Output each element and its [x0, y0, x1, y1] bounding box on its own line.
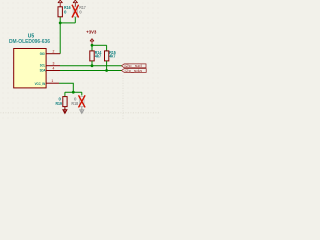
svg-text:1: 1 — [51, 79, 53, 83]
resistor R17 (DNP, gray) — [73, 7, 77, 17]
svg-text:GND: GND — [40, 52, 45, 56]
power flag below R18 (gray) — [80, 107, 84, 114]
wire GND net vertical from pin to R16 — [59, 17, 61, 54]
op module U5 body — [14, 49, 46, 88]
svg-text:VCC_IN: VCC_IN — [35, 82, 46, 86]
svg-text:4k7: 4k7 — [95, 53, 102, 58]
svg-text:4k7: 4k7 — [109, 53, 116, 58]
svg-text:R18: R18 — [71, 101, 78, 106]
svg-text:+3V3: +3V3 — [86, 30, 96, 36]
pin 1 VCC_IN line — [46, 82, 59, 84]
svg-text:4: 4 — [53, 66, 55, 70]
pin 4 SDA line — [46, 70, 60, 72]
resistor R15 — [105, 51, 109, 61]
junction R15/SDA — [105, 69, 108, 72]
svg-text:SDA: SDA — [40, 69, 46, 73]
power flag below R19 — [63, 107, 67, 114]
power flag above R17 — [73, 0, 78, 6]
wire R17 drop — [74, 17, 76, 23]
global label I2c_sda — [122, 69, 147, 73]
junction GND/R16/R17 — [59, 22, 62, 25]
pin 2 GND line — [46, 53, 60, 55]
svg-text:DM-OLED096-636: DM-OLED096-636 — [9, 39, 50, 45]
wire +3V3 across to R15 — [92, 44, 107, 46]
power +3V3 symbol — [90, 39, 94, 46]
wire down to R18 — [81, 92, 83, 95]
svg-text:2: 2 — [53, 50, 55, 54]
svg-text:3: 3 — [53, 62, 55, 66]
wire SDA net — [60, 70, 122, 72]
resistor R18 (DNP, gray) — [80, 97, 84, 107]
wire VCC_IN net — [59, 83, 73, 92]
DNP X over R17 — [72, 5, 79, 18]
wire VCC_IN horizontal split — [65, 91, 82, 93]
pin 3 SCL line — [46, 65, 60, 67]
resistor R16 — [58, 7, 62, 17]
DNP X over R18 — [79, 95, 86, 107]
svg-text:R19: R19 — [56, 101, 63, 106]
wire +3V3 down to R14 — [91, 45, 93, 51]
wire R14 to SCL — [91, 61, 93, 66]
junction R14/SCL — [91, 64, 94, 67]
junction VCC_IN — [72, 91, 75, 94]
svg-text:I2c_scl: I2c_scl — [124, 64, 142, 68]
wire R15 to SDA — [106, 61, 108, 71]
resistor R14 — [90, 51, 94, 61]
wire down to R15 — [106, 45, 108, 51]
wire down to R19 — [64, 92, 66, 96]
global label I2c_scl — [122, 64, 147, 68]
wire horizontal R16 to R17 — [60, 22, 75, 24]
resistor R19 — [63, 97, 67, 107]
svg-text:SCL: SCL — [40, 63, 46, 67]
svg-text:I2c_sda: I2c_sda — [124, 69, 142, 73]
wire SCL net — [60, 65, 122, 67]
junction +3V3 — [91, 44, 94, 47]
power flag above R16 — [58, 0, 63, 7]
